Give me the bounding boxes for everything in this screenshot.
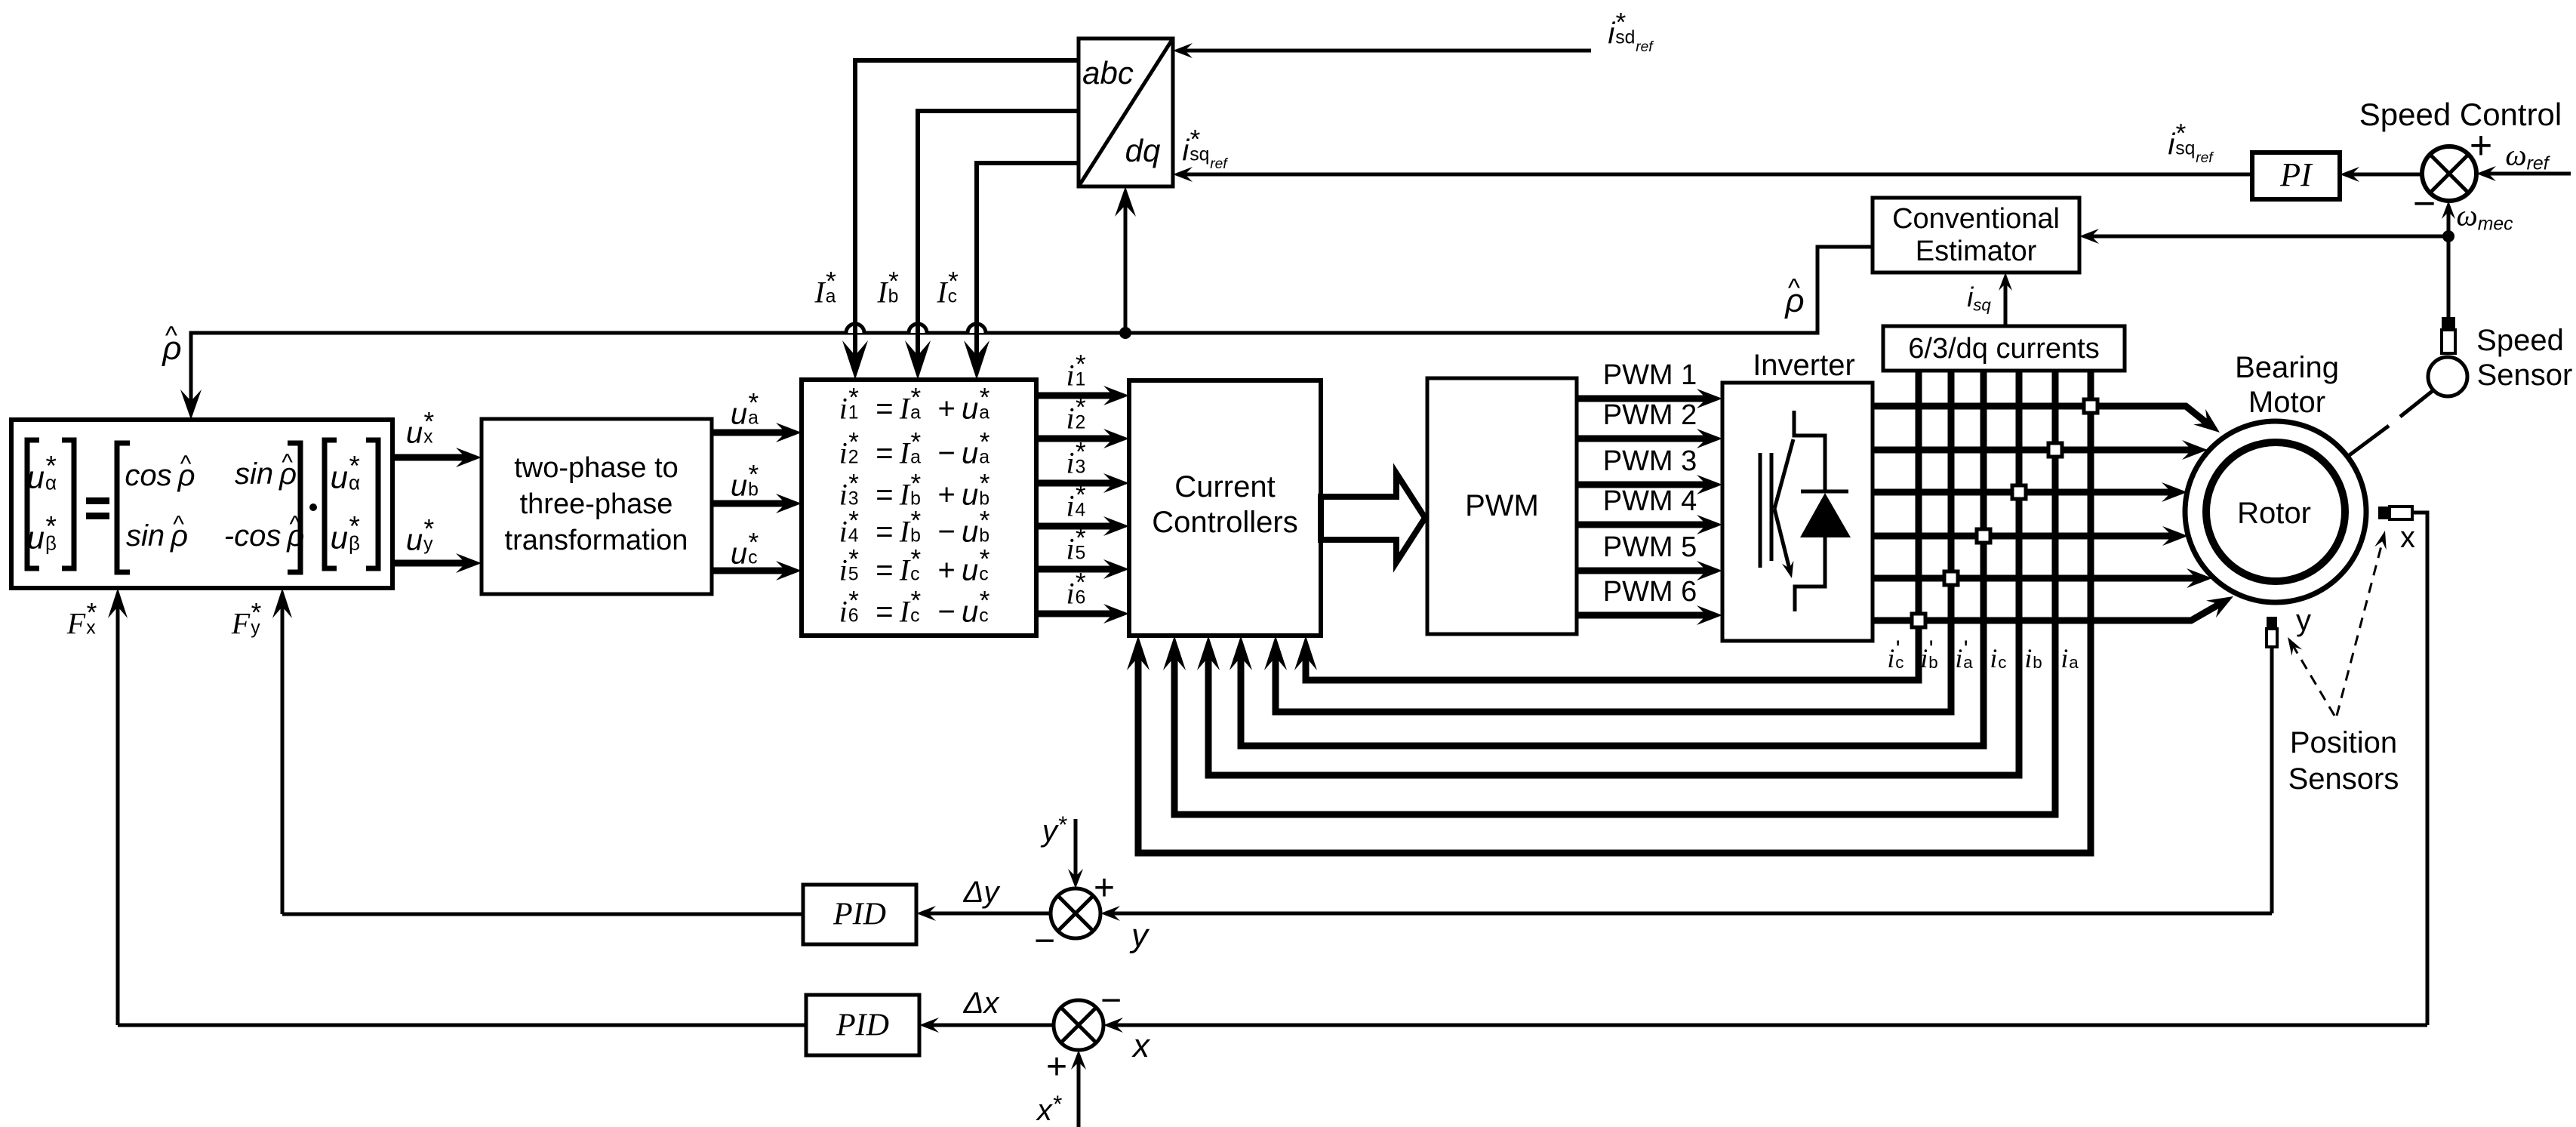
label u*beta — [27, 517, 67, 554]
label i*sqref — [2168, 125, 2212, 166]
label hat rho — [162, 332, 181, 365]
label Conventional — [1892, 205, 2060, 233]
label PWM 1 — [1603, 361, 1697, 390]
wire isq from currents block to estimator — [2004, 282, 2008, 326]
label Sensor — [2477, 360, 2573, 390]
label ic — [1990, 640, 2016, 672]
wire PID y output to Fy* — [282, 913, 803, 916]
wire current sense ib feedback — [1174, 371, 2055, 814]
wire PWM 1 arrow — [1577, 396, 1708, 402]
label PWM — [1465, 491, 1539, 521]
wire Fx* into matrix block — [116, 605, 120, 1025]
label i*5 — [1066, 529, 1095, 565]
label PID — [833, 898, 886, 931]
label PWM 5 — [1603, 533, 1697, 562]
label Current — [1174, 472, 1275, 502]
label u*c — [731, 534, 768, 569]
label sin hat rho — [126, 521, 188, 551]
wire rho-hat branch up into abc/dq block — [1124, 203, 1128, 333]
label u*alpha — [27, 457, 67, 494]
wire i5* arrow — [1036, 566, 1115, 573]
label PWM 4 — [1603, 487, 1697, 516]
label hat rho — [1785, 285, 1804, 318]
node tap ic on phase 3 — [2012, 485, 2026, 499]
wire speed sensor to junction — [2447, 236, 2451, 319]
summing junction y position — [1051, 888, 1100, 938]
label abc — [1082, 57, 1134, 89]
wire omega_mec into summing junction — [2447, 211, 2451, 236]
label isq — [1967, 284, 1991, 314]
label 6/3/dq currents — [1908, 334, 2099, 363]
label y* — [1042, 813, 1066, 846]
wire inverter output phase 5 to motor — [1873, 575, 2198, 582]
label u*beta — [331, 517, 371, 554]
label - — [1100, 983, 1122, 1019]
wire uy* arrow — [392, 560, 467, 567]
block Current Controllers — [1129, 380, 1321, 636]
wire i4* arrow — [1036, 523, 1115, 530]
label - — [1034, 923, 1055, 959]
label i*6=I*c-u*c — [839, 592, 1000, 627]
label u*y — [406, 520, 444, 556]
label PWM 2 — [1603, 401, 1697, 430]
wire omega_mec to Conventional Estimator — [2090, 235, 2448, 239]
node tap ib' on phase 5 — [1944, 571, 1958, 585]
label PI — [2280, 159, 2312, 192]
wire Fy* into matrix block — [281, 605, 285, 914]
label omegaref — [2505, 140, 2548, 174]
label Position — [2290, 728, 2397, 758]
position sensor x probe — [2378, 507, 2390, 519]
label ia — [2060, 640, 2087, 672]
wire ua* arrow — [712, 430, 787, 436]
label F*y — [232, 604, 271, 639]
inverter IGBT symbol — [1794, 411, 1825, 490]
block current equations — [802, 380, 1036, 636]
wire x* reference input — [1077, 1061, 1081, 1127]
label Speed Control — [2359, 99, 2562, 131]
wire current sense ic' feedback — [1306, 371, 1919, 680]
matrix left vector brackets — [27, 440, 39, 568]
label i'b — [1920, 640, 1947, 672]
label - — [2413, 184, 2436, 223]
wire PWM 2 arrow — [1577, 436, 1708, 442]
wire inverter output phase 2 to motor — [1873, 447, 2193, 454]
wire current sense ib' feedback — [1276, 371, 1951, 712]
node tap ia on phase 1 — [2084, 399, 2097, 413]
wire inverter output phase 1 to motor — [1873, 406, 2208, 424]
block abc/dq transformation U1 — [1079, 38, 1173, 186]
node tap ia' on phase 4 — [1977, 529, 1990, 543]
label omegamec — [2456, 201, 2513, 235]
wire Ia* from abc/dq to current equations block — [855, 60, 1079, 358]
wire current sense ic feedback — [1208, 371, 2019, 775]
junction omega_mec — [2442, 230, 2454, 242]
label + — [2470, 126, 2492, 165]
wire isd_ref* input into abc/dq — [1183, 49, 1591, 53]
label PID — [836, 1009, 889, 1042]
label I*b — [877, 273, 908, 308]
label dq — [1125, 135, 1161, 167]
summing junction x position — [1054, 1000, 1103, 1050]
label i*3 — [1066, 443, 1095, 479]
label Bearing — [2235, 353, 2339, 383]
label Inverter — [1753, 350, 1855, 380]
label Motor — [2248, 387, 2325, 417]
label i*6 — [1066, 574, 1095, 609]
node tap ic' on phase 6 — [1912, 614, 1925, 627]
pointer dashed arrow to y sensor — [2291, 643, 2334, 716]
label y — [1131, 919, 1148, 953]
wire current sense ia feedback — [1138, 371, 2091, 853]
label x — [1133, 1030, 1150, 1063]
matrix equals sign — [86, 497, 109, 504]
wire ub* arrow — [712, 500, 787, 507]
wire ux* arrow — [392, 454, 467, 461]
matrix right vector brackets — [325, 440, 337, 568]
block Conventional Estimator — [1873, 198, 2079, 273]
label Controllers — [1152, 507, 1297, 537]
block PID y-axis — [803, 885, 916, 944]
wire rho-hat feedback line from Conventional Estimator to transformation matrix block — [191, 247, 1873, 377]
label Sensors — [2288, 764, 2399, 794]
wire i1* arrow — [1036, 393, 1115, 399]
label u*a — [731, 394, 768, 430]
wire i2* arrow — [1036, 436, 1115, 442]
wire y* reference input — [1074, 819, 1078, 878]
label u*b — [731, 466, 768, 501]
label i*4 — [1066, 486, 1095, 522]
label sin hat rho — [235, 459, 297, 489]
label Deltax — [964, 988, 999, 1018]
speed sensor link to motor shaft — [2400, 390, 2433, 417]
label x — [2400, 522, 2415, 553]
block PID x-axis — [806, 995, 919, 1055]
bearing motor inner ring — [2206, 442, 2345, 581]
label u*x — [406, 413, 444, 448]
node tap ib on phase 2 — [2048, 443, 2062, 457]
pointer dashed arrow to x sensor — [2337, 537, 2384, 716]
label i*sdref — [1608, 14, 1652, 55]
label Deltay — [964, 877, 999, 907]
label i*2=I*a-u*a — [839, 433, 1000, 469]
label I*c — [937, 273, 968, 308]
block PI speed controller — [2252, 152, 2340, 199]
label + — [1094, 870, 1115, 907]
label i*5=I*c+u*c — [839, 550, 1000, 586]
wire PWM 6 arrow — [1577, 612, 1708, 619]
wire delta-x to PID — [930, 1024, 1054, 1027]
block Inverter — [1722, 383, 1873, 641]
wire Ic* from abc/dq to current equations block — [977, 163, 1079, 358]
block transformation matrix equation — [11, 420, 392, 588]
label PWM 6 — [1603, 577, 1697, 606]
label i*1 — [1066, 356, 1095, 391]
label two-phase to — [514, 454, 679, 482]
label i'a — [1955, 640, 1981, 672]
label Estimator — [1916, 237, 2036, 266]
label cos hat rho — [125, 460, 195, 491]
label -cos hat rho — [224, 521, 305, 551]
bearing motor outer stator ring — [2185, 421, 2366, 602]
block 6/3/dq currents — [1883, 326, 2125, 371]
label i'c — [1887, 640, 1913, 672]
label F*x — [67, 604, 106, 639]
summing junction speed control — [2422, 146, 2476, 201]
speed sensor circle — [2428, 357, 2467, 396]
wire PID x output to Fx* — [118, 1024, 806, 1027]
label i*3=I*b+u*b — [839, 475, 1000, 510]
label PWM 3 — [1603, 447, 1697, 476]
wire y sensor feedback to y summing junction — [2270, 647, 2274, 913]
label i*4=I*b-u*b — [839, 512, 1000, 547]
wire inverter output phase 3 to motor — [1873, 489, 2173, 496]
wire rho-hat arrow into matrix block top — [189, 355, 193, 403]
wire isq_ref* from PI to abc/dq — [1183, 173, 2252, 177]
wire Ib* from abc/dq to current equations block — [918, 111, 1079, 358]
wire i6* arrow — [1036, 611, 1115, 617]
label y — [2296, 605, 2311, 636]
wire i3* arrow — [1036, 480, 1115, 487]
label Speed — [2476, 325, 2564, 356]
junction rho-hat to abc/dq — [1119, 327, 1131, 339]
label u*alpha — [331, 457, 371, 494]
wire summing junction to PI — [2350, 173, 2422, 177]
wire current sense ia' feedback — [1241, 371, 1984, 746]
wire PWM 3 arrow — [1577, 482, 1708, 488]
matrix big brackets — [117, 443, 130, 572]
block two-phase to three-phase transformation — [482, 419, 712, 594]
label i*1=I*a+u*a — [839, 389, 1000, 424]
block arrow Current Controllers to PWM — [1321, 473, 1425, 562]
label I*a — [814, 273, 845, 308]
position sensor y probe — [2267, 617, 2277, 629]
wire inverter output phase 4 to motor — [1873, 533, 2174, 540]
label x* — [1037, 1092, 1061, 1125]
label ib — [2024, 640, 2051, 672]
label transformation — [505, 526, 688, 555]
wire PWM 5 arrow — [1577, 568, 1708, 574]
label i*sqref — [1182, 131, 1226, 172]
matrix dot operator — [309, 503, 317, 511]
wire inverter output phase 6 to motor — [1873, 603, 2221, 620]
wire x sensor feedback to x summing junction — [2412, 513, 2427, 1025]
wire delta-y to PID — [927, 912, 1051, 916]
label Rotor — [2237, 498, 2311, 528]
block PWM — [1427, 378, 1577, 634]
wire omega_ref input arrow — [2487, 172, 2571, 176]
wire PWM 4 arrow — [1577, 522, 1708, 528]
label three-phase — [520, 490, 673, 519]
wire uc* arrow — [712, 568, 787, 574]
label + — [1046, 1049, 1067, 1085]
label i*2 — [1066, 399, 1095, 434]
speed sensor probe — [2442, 317, 2455, 330]
